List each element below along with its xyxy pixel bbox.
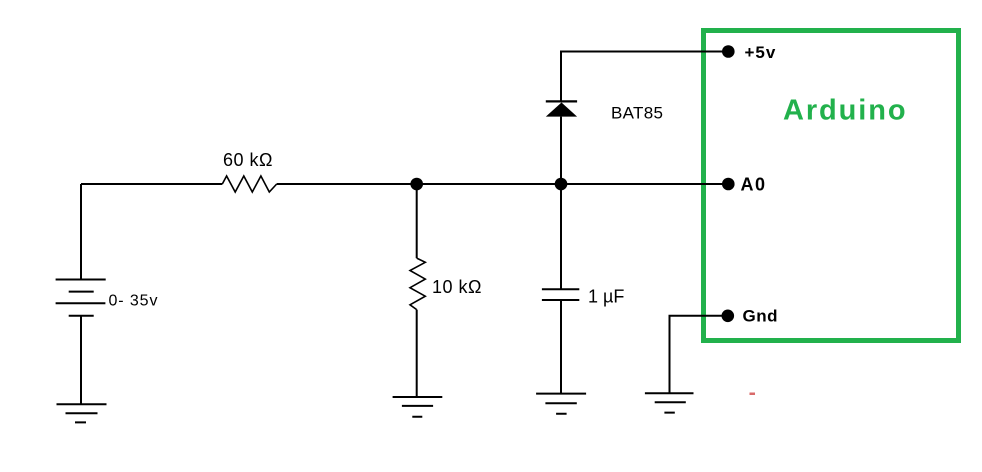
- svg-text:BAT85: BAT85: [611, 104, 663, 123]
- wire battery top: [80, 184, 82, 280]
- pin A0: [722, 178, 735, 191]
- resistor R2: [410, 258, 425, 310]
- ground capacitor: [536, 394, 586, 414]
- ground R2: [393, 397, 443, 417]
- wire battery bottom: [80, 316, 82, 405]
- svg-text:10 kΩ: 10 kΩ: [432, 277, 482, 297]
- ground battery: [57, 404, 107, 422]
- ground Gnd pin: [645, 393, 694, 412]
- pin Gnd: [722, 310, 735, 323]
- node A: [410, 178, 423, 191]
- Arduino box U1: [704, 31, 959, 341]
- battery V1: [56, 280, 106, 316]
- wire Gnd pin to ground: [670, 316, 728, 394]
- wire diode to +5v: [561, 52, 728, 102]
- wire node B to capacitor: [560, 184, 562, 289]
- node B: [555, 178, 568, 191]
- diode D1: [546, 100, 577, 102]
- resistor R1: [222, 176, 276, 192]
- svg-text:Arduino: Arduino: [783, 95, 907, 127]
- red mark: [750, 393, 756, 396]
- wire R2 to ground: [416, 310, 418, 397]
- svg-text:Gnd: Gnd: [743, 307, 779, 326]
- pin +5v: [722, 45, 735, 58]
- wire main horizontal: [81, 183, 728, 185]
- wire node B to diode: [560, 117, 562, 184]
- svg-text:60 kΩ: 60 kΩ: [223, 150, 273, 170]
- svg-text:1 µF: 1 µF: [588, 287, 624, 307]
- svg-text:+5v: +5v: [745, 43, 777, 62]
- capacitor C1: [542, 289, 579, 300]
- svg-text:0- 35v: 0- 35v: [109, 293, 159, 310]
- svg-text:A0: A0: [741, 175, 767, 195]
- wire node A to R2: [416, 184, 418, 258]
- wire capacitor to ground: [560, 300, 562, 394]
